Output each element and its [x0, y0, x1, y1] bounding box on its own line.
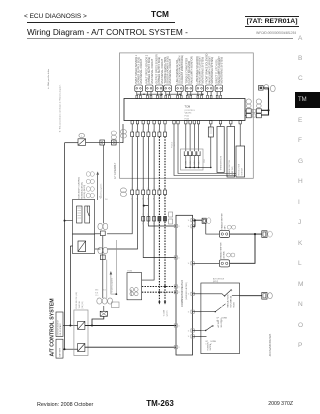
wire ignition to fuse block — [63, 325, 78, 327]
meter pin squares left edge — [174, 224, 177, 227]
wire sensor pins to TCM — [178, 92, 182, 96]
svg-text:TRANSMISSION: TRANSMISSION — [220, 155, 223, 170]
wires TCM to pressure switch group — [185, 124, 187, 151]
svg-text:12: 12 — [142, 188, 144, 190]
wire row2-4 to meter — [148, 195, 176, 226]
cluster side box — [112, 302, 120, 308]
node v2 ignition junction — [69, 325, 71, 327]
wire connector1 down — [103, 145, 105, 223]
header title TCM — [0, 10, 320, 18]
svg-text:B10: B10 — [103, 290, 106, 292]
svg-text:2: 2 — [158, 214, 159, 216]
wires meter to A/T device — [193, 293, 201, 295]
svg-text:M66: M66 — [95, 290, 98, 292]
svg-text:14: 14 — [188, 330, 190, 332]
svg-text:BCM (BODY CONTROL: BCM (BODY CONTROL — [78, 176, 80, 199]
wire sensor pins to TCM — [198, 92, 202, 96]
svg-text:B: B — [142, 130, 143, 132]
svg-text:B: B — [158, 130, 159, 132]
svg-text:MONITORING SYSTEM): MONITORING SYSTEM) — [220, 57, 223, 84]
TCM top pin squares — [197, 95, 199, 98]
connector pair 1 ovals — [98, 223, 103, 229]
svg-text:FUSE BLOCK (J/B): FUSE BLOCK (J/B) — [76, 292, 78, 309]
svg-text:21: 21 — [178, 286, 180, 288]
svg-text:MODULE) (M118),: MODULE) (M118), — [81, 182, 83, 199]
node v1 battery junction — [64, 348, 66, 350]
wire row2-1 to shift lock relay — [107, 195, 132, 234]
svg-text:12: 12 — [147, 188, 149, 190]
solenoid/sensor Low Brake Solenoid — [196, 85, 204, 92]
wire CAN bus lower — [142, 291, 176, 293]
svg-text:[14] [16]: [14] [16] — [82, 301, 84, 308]
battery box — [56, 339, 63, 358]
svg-text:A/T SHIFT: A/T SHIFT — [217, 320, 220, 328]
svg-text:12: 12 — [164, 188, 166, 190]
footer model year — [243, 402, 293, 408]
svg-text:B: B — [153, 224, 154, 226]
wire relay to row2-1 — [95, 233, 101, 235]
svg-text:AND SIGNAL CIRCUIT: AND SIGNAL CIRCUIT — [169, 58, 172, 83]
cluster ground square — [100, 311, 107, 316]
svg-text:F502: F502 — [185, 116, 190, 118]
wire paddle up to connector — [230, 233, 262, 235]
wire fusible link feed — [65, 142, 79, 144]
svg-text:B: B — [137, 130, 138, 132]
wire ignition feed vertical v2 — [70, 246, 72, 326]
svg-text:21: 21 — [178, 292, 180, 294]
node CAN junctions — [158, 291, 160, 293]
svg-text:JCDWM0652GB: JCDWM0652GB — [268, 334, 272, 357]
ignition switch box — [56, 312, 63, 337]
row1 connector squares — [131, 132, 134, 137]
boundary link squares — [252, 109, 255, 112]
svg-text:(PNP SW): (PNP SW) — [232, 166, 234, 175]
svg-text:A/T ASSEMBLY: A/T ASSEMBLY — [114, 162, 117, 179]
paddle shifter up switch — [219, 230, 229, 237]
ECM box — [127, 273, 142, 300]
svg-text:2: 2 — [147, 214, 148, 216]
node v1 relay junction — [64, 220, 66, 222]
meter pin squares right edge — [191, 219, 194, 222]
connector row mid squares CAN — [158, 216, 161, 221]
wire sensor common bus — [137, 93, 203, 95]
svg-text:B: B — [164, 130, 165, 132]
svg-text:(UNIFIED METER): (UNIFIED METER) — [186, 282, 188, 300]
svg-text:COMBINATION METER: COMBINATION METER — [181, 280, 184, 307]
connector ref oval above fusible link — [79, 133, 85, 137]
svg-text:system: system — [165, 310, 168, 316]
svg-text:(CONTROL: (CONTROL — [185, 110, 196, 112]
TCM top pin squares — [165, 95, 167, 98]
fusible link symbol — [78, 139, 86, 146]
to starting system arrow — [96, 171, 99, 174]
connector squares stack2 — [256, 109, 261, 113]
svg-text:GND: GND — [204, 158, 206, 163]
svg-text:BATTERY: BATTERY — [59, 347, 62, 356]
svg-text:AND SIGNAL CIRCUIT: AND SIGNAL CIRCUIT — [151, 58, 154, 83]
wire A/T device to connector — [240, 295, 262, 297]
svg-text:SENSOR: SENSOR — [241, 167, 243, 175]
wire pair2 down to cluster — [106, 260, 108, 298]
svg-text:MONITORING SYSTEM): MONITORING SYSTEM) — [211, 57, 214, 84]
svg-text:POSITION: POSITION — [207, 342, 209, 351]
manual mode switch — [201, 294, 224, 296]
svg-text:(M57): (M57) — [213, 281, 219, 283]
svg-text:DOWN: DOWN — [211, 341, 217, 343]
connector ref ovals top right — [264, 85, 269, 90]
resistor component — [210, 124, 212, 127]
connector ref ovals row1 — [120, 130, 126, 135]
wire pressure switch common bus — [186, 166, 211, 168]
TCM top pin squares — [186, 95, 188, 98]
wire CAN continuation arrows — [159, 287, 165, 302]
wire CAN-H dashed — [164, 195, 166, 287]
fuse block J/B box — [74, 310, 88, 356]
wire pair1 down to cluster — [102, 236, 104, 298]
svg-text:ON OR START: ON OR START — [59, 322, 62, 335]
wire sensor pins to TCM — [208, 92, 212, 96]
svg-text:14: 14 — [188, 336, 190, 338]
page title rule — [27, 38, 293, 39]
wire branch vertical — [115, 240, 117, 294]
connector ref ovals stack2 — [256, 99, 261, 104]
svg-text:★: This connector is not shown: ★: This connector is not shown in "Harne… — [59, 84, 62, 133]
svg-text:SWITCH: SWITCH — [210, 343, 212, 350]
svg-text:12: 12 — [137, 188, 139, 190]
paddle harness connector — [202, 218, 206, 223]
A/T device box — [201, 283, 240, 354]
svg-text:MONITORING SYSTEM): MONITORING SYSTEM) — [201, 57, 204, 84]
svg-text:MODE: MODE — [233, 301, 235, 307]
solenoid/sensor Input Speed Sensor 1 — [135, 85, 143, 92]
connector ref ovals above F33 — [111, 131, 116, 135]
svg-text:(M119), (M123): (M119), (M123) — [84, 185, 86, 199]
TCM top pin squares — [157, 95, 159, 98]
svg-text:B: B — [164, 224, 165, 226]
svg-text:12: 12 — [158, 188, 160, 190]
wire sensor pins to TCM — [157, 92, 161, 96]
svg-text:21: 21 — [178, 325, 180, 327]
svg-text:ECM: ECM — [129, 290, 133, 296]
svg-text:ECM: ECM — [128, 271, 133, 273]
connector right A/T device — [262, 293, 267, 300]
node K-line junction — [267, 109, 269, 111]
TCM top pin squares — [216, 95, 218, 98]
svg-text:A/T CONTROL SYSTEM: A/T CONTROL SYSTEM — [50, 298, 56, 356]
connector ref ovals stack1 — [246, 99, 251, 104]
connector square F33 — [112, 140, 117, 145]
combination meter box — [176, 215, 193, 355]
wire fuse2 output to combination meter — [85, 346, 176, 348]
svg-text:MANUAL MODE: MANUAL MODE — [226, 293, 229, 307]
TCM top pin squares — [177, 95, 179, 98]
svg-text:14: 14 — [188, 294, 190, 296]
node ground branch junction — [91, 325, 93, 327]
wire junction down to paddle down — [230, 234, 255, 263]
wire TCM to stack1 — [245, 111, 246, 116]
svg-text:To CAN: To CAN — [162, 309, 165, 316]
TCM box — [124, 99, 245, 121]
svg-text:REVOLUTION: REVOLUTION — [238, 163, 240, 175]
transmission range switch box — [220, 124, 222, 127]
solenoid/sensor Input Speed Sensor 2 — [145, 85, 153, 92]
svg-text:B: B — [147, 130, 148, 132]
svg-text:W B: W B — [95, 292, 99, 294]
svg-text:(DOWN): (DOWN) — [223, 251, 225, 259]
svg-text:21: 21 — [178, 226, 180, 228]
revolution sensor box — [239, 124, 241, 146]
wire row2-3 to meter — [143, 195, 176, 258]
connector squares stack1 — [246, 109, 251, 113]
svg-text:TCM: TCM — [185, 105, 191, 109]
range switch box 2 — [230, 124, 232, 127]
svg-text:NON-MANUAL: NON-MANUAL — [229, 295, 232, 307]
svg-text:AND SIGNAL CIRCUIT: AND SIGNAL CIRCUIT — [140, 58, 143, 83]
wire connector down to paddle line — [206, 223, 220, 234]
node paddle junction — [254, 233, 256, 235]
svg-text:B: B — [158, 224, 159, 226]
connector pair 1 square — [100, 231, 105, 236]
svg-text:B: B — [147, 224, 148, 226]
wire sensor pins to TCM — [217, 92, 221, 96]
infoid — [200, 31, 296, 35]
wire sensor pins to TCM — [137, 92, 141, 96]
data link connector symbol top right — [259, 86, 264, 91]
header model tag — [245, 18, 298, 25]
wire sensor pins to TCM — [147, 92, 151, 96]
svg-text:B: B — [153, 130, 154, 132]
selector switch — [201, 311, 215, 313]
header breadcrumb — [24, 14, 87, 21]
svg-text:PSW B: PSW B — [174, 141, 176, 148]
connector row mid squares — [142, 216, 145, 221]
wire cluster to ignition feed black — [92, 316, 104, 325]
svg-text:B: B — [142, 224, 143, 226]
pressure switch 3 — [193, 151, 196, 156]
wire meter to paddle down — [193, 262, 220, 264]
connector ref ovals row2 — [120, 188, 126, 193]
solenoid/sensor Turbine Revolution — [164, 85, 172, 92]
wire switch to row2-2 — [95, 248, 101, 250]
solenoid/sensor Line Pressure Sol. — [176, 85, 184, 92]
TCM top pin squares — [136, 95, 138, 98]
node paddle feed junction — [194, 219, 196, 221]
page title — [27, 28, 188, 37]
shift lock relay box — [73, 200, 95, 235]
wire sensor pins to TCM — [166, 92, 170, 96]
meter top-left pin squares — [169, 212, 173, 217]
paddle shifter down switch — [219, 260, 229, 267]
svg-text:12: 12 — [153, 188, 155, 190]
svg-text:2: 2 — [164, 214, 165, 216]
svg-text:UP: UP — [217, 318, 220, 320]
solenoid/sensor Direct Clutch Sol. — [215, 85, 223, 92]
wire battery to fuse block — [63, 348, 78, 350]
svg-text:F503: F503 — [185, 118, 190, 120]
svg-text:L: L — [81, 135, 83, 137]
svg-text:2: 2 — [153, 214, 154, 216]
header rule over model tag — [245, 16, 299, 17]
TCM top pin squares — [207, 95, 209, 98]
wire row2-2 to stop lamp switch — [107, 195, 137, 249]
TCM bottom pin squares — [131, 121, 133, 124]
connector right paddle — [262, 231, 267, 238]
bypass wire 1 — [174, 124, 236, 176]
stop lamp switch box — [73, 234, 95, 254]
fuse 2 — [78, 344, 85, 352]
svg-text:PSW A: PSW A — [170, 142, 173, 148]
connector square F51 — [100, 140, 105, 145]
solenoid/sensor Front Brake Solenoid — [206, 85, 214, 92]
svg-text:21: 21 — [178, 257, 180, 259]
wire battery feed vertical v1 — [64, 143, 66, 350]
svg-text:W/L: W/L — [105, 199, 108, 201]
fuse 1 — [78, 321, 85, 329]
connector pair 2 ovals — [98, 247, 103, 253]
svg-text:PADDLE SHIFTER: PADDLE SHIFTER — [219, 242, 222, 259]
relay ref ovals — [86, 172, 90, 177]
svg-text:PADDLE SHIFTER: PADDLE SHIFTER — [220, 213, 223, 230]
svg-text:(UP): (UP) — [224, 225, 226, 229]
wire fusible link to TCM — [86, 124, 123, 143]
solenoid/sensor Output Speed Sensor — [155, 85, 163, 92]
svg-text:12 4: 12 4 — [95, 295, 98, 297]
pressure switch 4 — [197, 151, 200, 156]
svg-text:★: With paddle shifter: ★: With paddle shifter — [47, 68, 50, 89]
wire K-line thick — [263, 88, 268, 110]
wire CAN-L dashed — [158, 195, 160, 293]
row2 connector squares — [131, 190, 134, 195]
wire sensor pins to TCM — [187, 92, 191, 96]
svg-text:10A 10A: 10A 10A — [78, 301, 81, 309]
node branch dot — [143, 205, 145, 207]
svg-text:14: 14 — [188, 226, 190, 228]
svg-text:B: B — [131, 130, 132, 132]
pressure switch 2 — [189, 151, 192, 156]
svg-text:14: 14 — [188, 263, 190, 265]
svg-text:14: 14 — [188, 220, 190, 222]
footer revision — [37, 403, 93, 409]
wires row1 to row2 — [131, 137, 133, 190]
pressure switch 1 — [184, 151, 187, 156]
connector pair 2 square — [100, 255, 105, 260]
svg-text:CURRENT MONITORING): CURRENT MONITORING) — [181, 55, 184, 84]
svg-text:14: 14 — [188, 312, 190, 314]
svg-text:VALVE (WITH MONITOR): VALVE (WITH MONITOR) — [191, 56, 194, 84]
wire resistor to bus — [210, 137, 212, 167]
wire fuse1 output to combination meter — [85, 325, 176, 327]
TCM top pin squares — [147, 95, 149, 98]
shift up/down switch — [201, 331, 207, 337]
pressure switch group box — [181, 149, 204, 170]
TM tab — [295, 92, 320, 108]
solenoid/sensor Torque Converter — [185, 85, 193, 92]
wire CAN bus upper — [142, 286, 176, 288]
svg-text:SELECTOR: SELECTOR — [221, 318, 223, 328]
to lighting system arrow — [110, 271, 113, 275]
svg-text:RANGE SWITCH: RANGE SWITCH — [228, 160, 231, 175]
svg-text:21: 21 — [178, 347, 180, 349]
bypass wire 2 — [178, 124, 236, 174]
cluster ovals — [97, 298, 102, 304]
svg-text:12: 12 — [131, 188, 133, 190]
svg-text:VALVE): VALVE) — [185, 112, 192, 115]
wire row2-5 to ECM — [142, 195, 154, 281]
A/T assembly boundary box — [120, 53, 254, 178]
paddle up ref circles — [227, 225, 231, 229]
paddle down ref circles — [227, 253, 231, 257]
header rule under model tag — [245, 26, 299, 27]
wire meter to paddle connector — [193, 220, 203, 226]
footer page number — [120, 400, 200, 408]
svg-text:2: 2 — [142, 214, 143, 216]
header rule under breadcrumb — [27, 22, 175, 23]
